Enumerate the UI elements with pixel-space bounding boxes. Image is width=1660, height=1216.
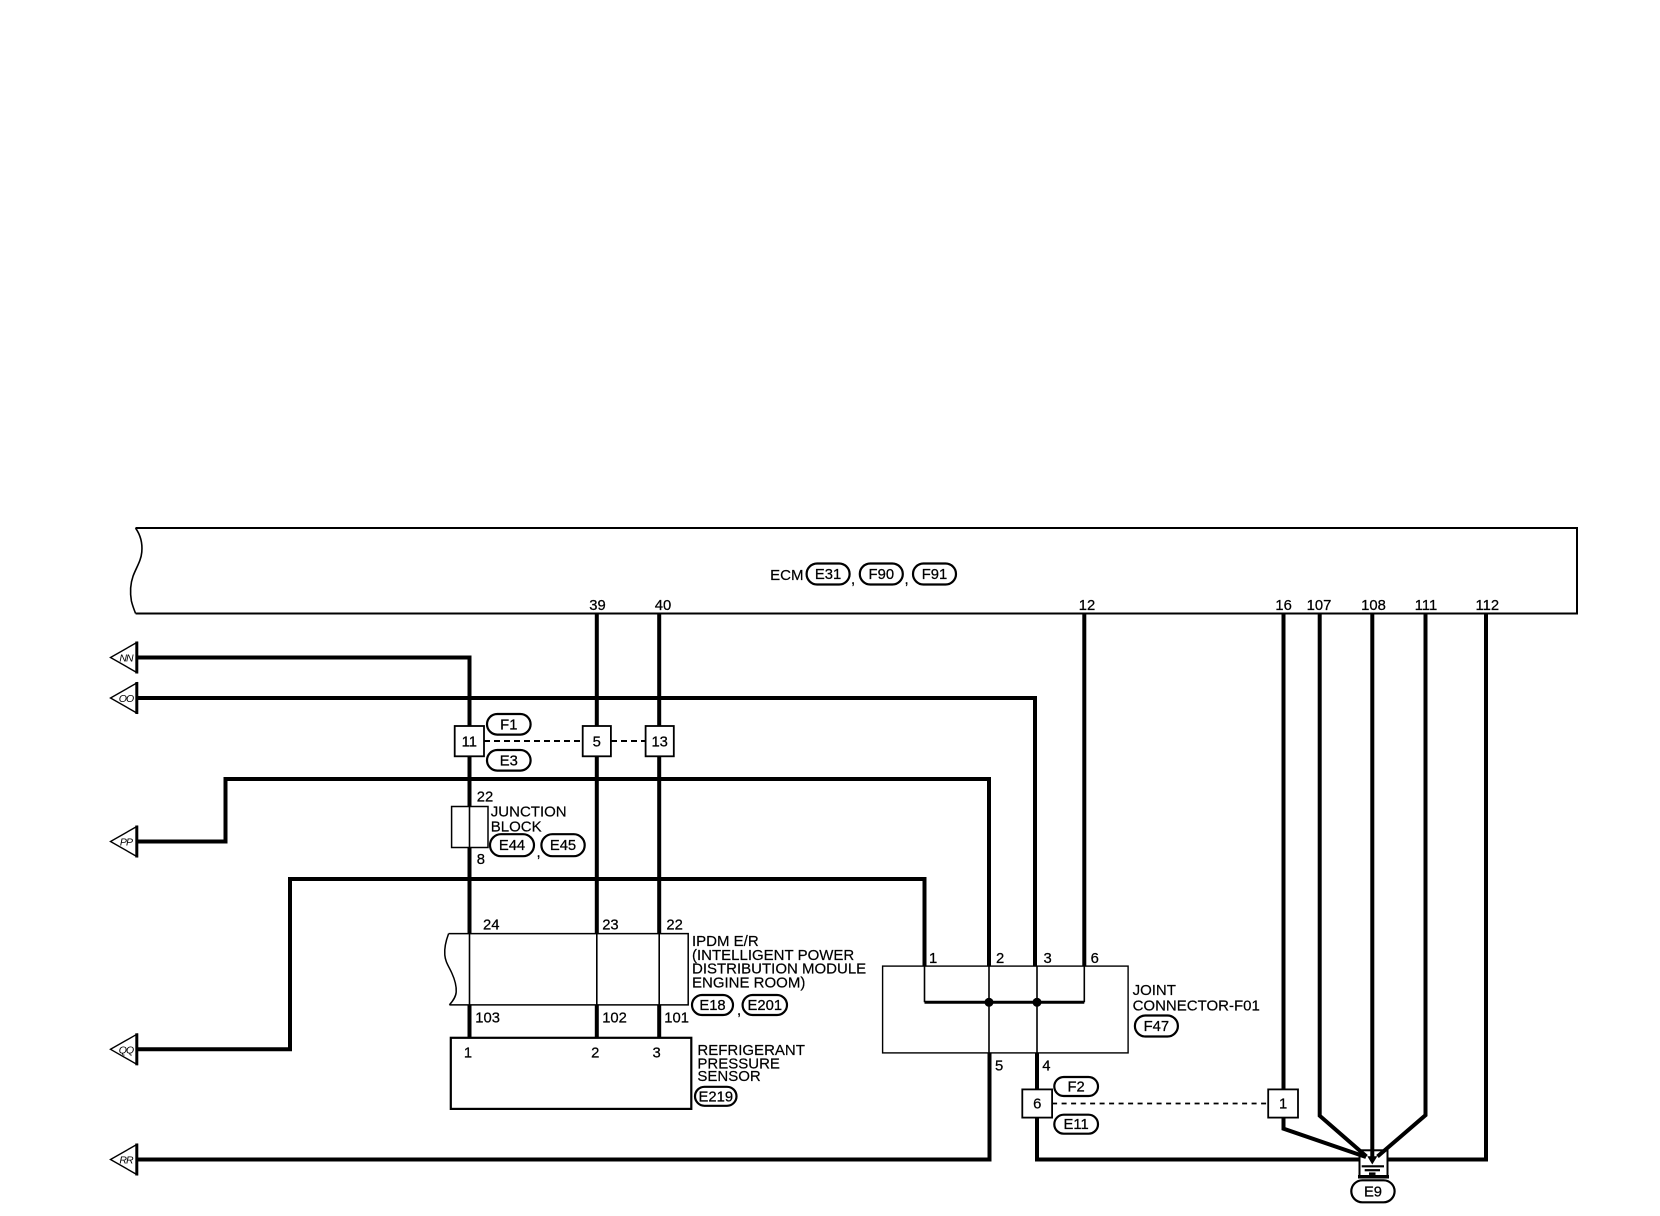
svg-text:2: 2: [996, 951, 1004, 967]
ECM box: [131, 528, 1577, 614]
IPDM pin 22 label: [666, 918, 682, 934]
label JOINT CONNECTOR-F01: [1133, 982, 1260, 1015]
svg-text:13: 13: [651, 735, 667, 751]
wire ECM pin 40 down to IPDM pin 22: [657, 613, 661, 934]
junction dot at pin 2 bus: [985, 998, 994, 1007]
ECM pin 16 label: [1275, 598, 1291, 614]
svg-text:103: 103: [475, 1011, 500, 1027]
svg-text:E18: E18: [699, 998, 725, 1014]
svg-text:24: 24: [483, 918, 499, 934]
svg-text:,: ,: [537, 844, 541, 861]
junction block pin 22 label: [477, 790, 493, 806]
svg-text:1: 1: [464, 1045, 472, 1061]
joint connector pin 2 label: [996, 951, 1004, 967]
wire RR from triangle right then up to joint connector pin 5: [137, 1053, 990, 1162]
connector oval E9: [1351, 1180, 1394, 1202]
joint connector pin 5 label: [995, 1059, 1003, 1075]
wire OO from triangle right then down to joint connector pin 3: [137, 696, 1035, 966]
svg-text:2: 2: [591, 1045, 599, 1061]
svg-text:F91: F91: [922, 567, 948, 583]
svg-text:E44: E44: [499, 838, 525, 854]
junction block pin 8 label: [477, 852, 485, 868]
svg-text:E3: E3: [500, 754, 518, 770]
svg-text:QQ: QQ: [119, 1044, 134, 1056]
svg-text:E45: E45: [550, 838, 576, 854]
ECM pin 40 label: [655, 598, 671, 614]
connector oval E219: [695, 1087, 737, 1106]
label REFRIGERANT PRESSURE SENSOR: [697, 1042, 805, 1085]
svg-text:CONNECTOR-F01: CONNECTOR-F01: [1133, 998, 1260, 1015]
svg-text:5: 5: [995, 1059, 1003, 1075]
svg-text:RR: RR: [119, 1155, 134, 1167]
connector oval E201: [743, 995, 787, 1015]
svg-text:E219: E219: [699, 1089, 734, 1105]
wire QQ from triangle up and right then down to joint connector pin 1: [137, 877, 925, 1051]
svg-text:,: ,: [851, 571, 855, 588]
dashed line pin 6 to pin 1: [1052, 1103, 1268, 1105]
svg-text:OO: OO: [119, 693, 134, 705]
svg-text:22: 22: [666, 918, 682, 934]
ECM pin 112 label: [1476, 598, 1500, 614]
IPDM pin 101 label: [664, 1011, 689, 1027]
svg-text:11: 11: [462, 735, 477, 751]
refrigerant pressure sensor box: [451, 1038, 692, 1109]
svg-text:39: 39: [589, 598, 605, 614]
svg-text:E9: E9: [1364, 1184, 1382, 1200]
label JUNCTION BLOCK: [491, 804, 567, 836]
svg-text:E201: E201: [748, 998, 783, 1014]
svg-text:E11: E11: [1063, 1117, 1088, 1133]
svg-text:SENSOR: SENSOR: [697, 1068, 761, 1085]
wire ECM pin 39 down to IPDM pin 23: [595, 613, 599, 934]
connector box pin 13: [646, 726, 674, 756]
svg-text:,: ,: [905, 571, 909, 588]
svg-text:,: ,: [737, 1002, 741, 1019]
svg-text:111: 111: [1415, 598, 1438, 614]
junction block box: [452, 807, 488, 848]
dashed line pin 11 to 5 to 13: [484, 740, 646, 742]
svg-text:F1: F1: [500, 718, 517, 734]
svg-text:1: 1: [929, 951, 937, 967]
svg-text:1: 1: [1279, 1097, 1287, 1113]
wire ECM pin 112 down then left to ground: [1388, 613, 1489, 1162]
IPDM E/R box: [445, 934, 689, 1005]
svg-text:NN: NN: [119, 653, 134, 665]
wire ECM pin 111 down then diagonal to ground: [1378, 613, 1426, 1157]
wire IPDM 101 to sensor pin 3: [657, 1005, 661, 1038]
IPDM pin 23 label: [602, 918, 618, 934]
svg-text:PP: PP: [120, 837, 133, 849]
connector box pin 6: [1022, 1089, 1052, 1117]
junction dot at pin 3 bus: [1033, 998, 1042, 1007]
joint connector internal bus: [925, 966, 1085, 1053]
ECM pin 39 label: [589, 598, 605, 614]
svg-text:6: 6: [1033, 1097, 1041, 1113]
svg-text:JOINT: JOINT: [1133, 982, 1176, 999]
joint connector pin 1 label: [929, 951, 937, 967]
svg-text:ENGINE ROOM): ENGINE ROOM): [692, 975, 805, 992]
svg-text:F47: F47: [1144, 1019, 1170, 1035]
svg-text:107: 107: [1307, 598, 1332, 614]
ground symbol E9: [1358, 1150, 1389, 1177]
connector oval F1: [487, 714, 531, 735]
svg-text:5: 5: [593, 735, 601, 751]
svg-text:F2: F2: [1067, 1080, 1084, 1096]
joint connector pin 4 label: [1042, 1059, 1050, 1075]
joint connector pin 3 label: [1044, 951, 1052, 967]
svg-text:102: 102: [602, 1011, 627, 1027]
joint connector F01 box: [883, 966, 1129, 1053]
connector oval E45: [541, 834, 584, 856]
svg-text:BLOCK: BLOCK: [491, 819, 542, 836]
connector oval E31: [807, 564, 856, 589]
svg-text:3: 3: [652, 1045, 660, 1061]
connector oval F91: [913, 564, 956, 585]
connector oval F47: [1135, 1016, 1178, 1037]
wire thin inside IPDM pin24-103: [469, 934, 471, 1005]
svg-text:E31: E31: [815, 567, 841, 583]
wire IPDM 103 to sensor pin 1: [468, 1005, 472, 1038]
svg-text:8: 8: [477, 852, 485, 868]
svg-text:108: 108: [1361, 598, 1386, 614]
wire ECM pin 107 down then diagonal to ground: [1320, 613, 1367, 1157]
svg-text:16: 16: [1275, 598, 1291, 614]
IPDM pin 24 label: [483, 918, 499, 934]
label ECM: [770, 567, 803, 584]
svg-text:ECM: ECM: [770, 567, 803, 584]
connector triangle OO: [111, 682, 137, 714]
svg-text:3: 3: [1044, 951, 1052, 967]
connector triangle RR: [111, 1144, 137, 1176]
wire ECM pin 16 down through connector 1 box then diagonal to ground: [1284, 613, 1367, 1157]
svg-text:12: 12: [1079, 598, 1095, 614]
wire thin inside IPDM pin23-102: [596, 934, 598, 1005]
svg-text:23: 23: [602, 918, 618, 934]
ECM pin 108 label: [1361, 598, 1386, 614]
svg-text:40: 40: [655, 598, 671, 614]
wire NN horizontal from triangle to x469: [137, 656, 470, 660]
svg-text:6: 6: [1091, 951, 1099, 967]
connector box pin 1: [1268, 1089, 1298, 1117]
ECM pin 12 label: [1079, 598, 1095, 614]
wire PP from triangle up and right then down to joint connector pin 2: [137, 777, 989, 966]
connector oval E3: [487, 750, 531, 771]
sensor pin 1 label: [464, 1045, 472, 1061]
wire junction block to IPDM pin 24: [468, 848, 472, 934]
connector triangle NN: [111, 642, 137, 674]
connector oval F90: [860, 564, 909, 589]
connector oval E18: [692, 995, 741, 1019]
ECM pin 111 label: [1415, 598, 1438, 614]
wire thin through junction block: [469, 807, 471, 848]
wire thin inside IPDM pin22-101: [658, 934, 660, 1005]
connector oval E44: [490, 834, 541, 861]
wire joint connector pin 4 down through connector 6 box to ground bus: [1035, 1053, 1360, 1162]
wire from pin 11 box down to junction block: [468, 756, 472, 807]
wire ECM pin 108 straight down to ground: [1370, 613, 1374, 1158]
svg-text:4: 4: [1042, 1059, 1050, 1075]
sensor pin 2 label: [591, 1045, 599, 1061]
label IPDM E/R: [692, 933, 866, 992]
connector oval F2: [1054, 1077, 1098, 1096]
wire ECM pin 12 down to joint connector pin 6: [1082, 613, 1086, 966]
connector box pin 5: [583, 726, 611, 756]
wire NN vertical down to pin 11 box: [468, 656, 472, 727]
connector box pin 11: [455, 726, 484, 756]
svg-text:112: 112: [1476, 598, 1500, 614]
sensor pin 3 label: [652, 1045, 660, 1061]
connector triangle PP: [111, 826, 137, 858]
wire IPDM 102 to sensor pin 2: [595, 1005, 599, 1038]
joint connector pin 6 label: [1091, 951, 1099, 967]
connector oval E11: [1054, 1115, 1098, 1134]
IPDM pin 103 label: [475, 1011, 500, 1027]
svg-text:F90: F90: [869, 567, 895, 583]
ECM pin 107 label: [1307, 598, 1332, 614]
connector triangle QQ: [111, 1033, 137, 1065]
IPDM pin 102 label: [602, 1011, 627, 1027]
svg-text:101: 101: [664, 1011, 689, 1027]
